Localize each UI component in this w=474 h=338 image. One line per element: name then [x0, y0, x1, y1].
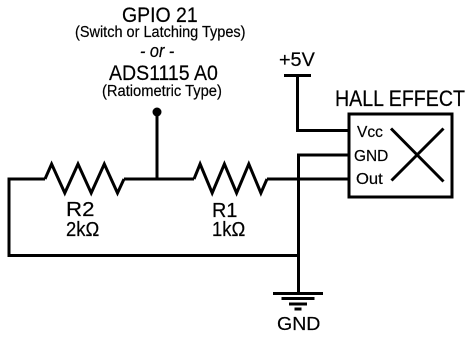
wire from GPIO node down to rail — [156, 110, 159, 179]
label R2 — [66, 200, 94, 221]
ground symbol bar 4 — [295, 308, 302, 311]
label - or - — [140, 42, 174, 61]
pin label Vcc — [357, 125, 383, 141]
pin label Out — [356, 172, 383, 188]
label (Ratiometric Type) — [102, 84, 222, 100]
label ADS1115 A0 — [109, 63, 218, 84]
+5V power bar — [284, 74, 311, 77]
ground symbol bar 1 — [273, 292, 323, 295]
hall effect box U1 — [349, 114, 452, 197]
X mark inside hall box — [391, 129, 444, 182]
label +5V — [279, 51, 315, 71]
pin label GND — [354, 149, 388, 165]
ground symbol bar 3 — [289, 303, 307, 306]
label GPIO 21 — [122, 5, 198, 26]
wire left loop and bottom rail — [9, 179, 299, 256]
value label 1k ohm — [212, 220, 245, 241]
value label 2k ohm — [66, 220, 99, 241]
label GND (bottom) — [277, 315, 320, 334]
wire between R2 and R1 — [124, 178, 194, 181]
wire R1 to Out pin — [267, 178, 349, 181]
label R1 — [212, 201, 237, 222]
resistor R2 — [45, 164, 124, 193]
ground symbol bar 2 — [282, 297, 315, 300]
wire +5V to Vcc pin — [298, 76, 350, 131]
wire GND pin to ground — [299, 155, 350, 293]
node A (GPIO/ADS tap dot) — [153, 108, 162, 117]
resistor R1 — [194, 164, 267, 193]
label HALL EFFECT — [335, 88, 465, 110]
label (Switch or Latching Types) — [75, 25, 246, 41]
